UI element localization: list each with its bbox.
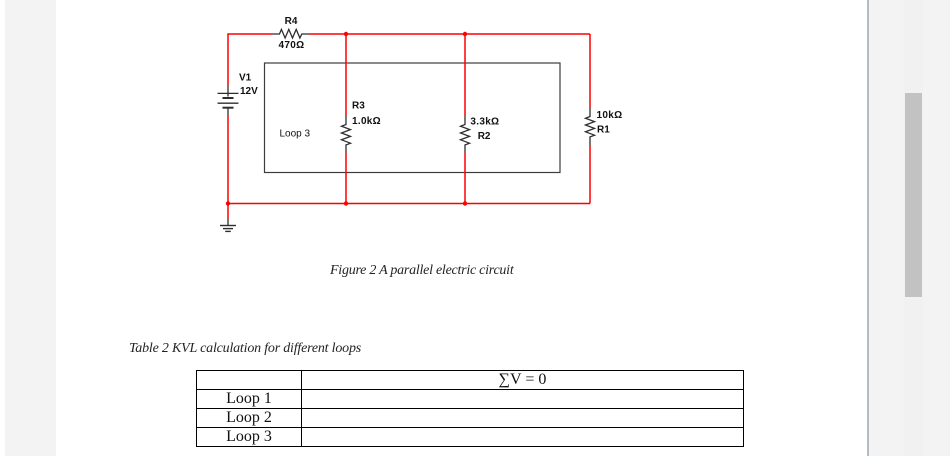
- wire branch R3: [345, 34, 347, 204]
- scrollbar track: [904, 0, 923, 456]
- ground: [220, 219, 236, 232]
- svg-text:470Ω: 470Ω: [278, 40, 304, 51]
- svg-text:1.0kΩ: 1.0kΩ: [352, 116, 381, 127]
- svg-text:Loop 3: Loop 3: [280, 128, 311, 139]
- right page edge line: [867, 0, 869, 456]
- table caption: [129, 341, 361, 357]
- wire bottom net: [228, 203, 590, 205]
- wire top net: V1+ to R4: [228, 34, 273, 204]
- scrollbar thumb: [905, 93, 922, 297]
- svg-text:R2: R2: [478, 131, 491, 142]
- figure caption: [330, 263, 513, 279]
- right gray margin band: [869, 0, 950, 456]
- node E (bottom junction R2): [463, 201, 467, 205]
- resistor R3: [342, 116, 351, 153]
- svg-text:3.3kΩ: 3.3kΩ: [470, 117, 499, 128]
- label V1: [239, 73, 252, 84]
- svg-text:12V: 12V: [240, 86, 258, 97]
- value 3.3kΩ: [470, 117, 499, 128]
- svg-text:10kΩ: 10kΩ: [597, 110, 623, 121]
- node B (top junction R2): [463, 32, 467, 36]
- wire top: R4 right to node A and corner: [309, 33, 590, 35]
- label R1: [597, 125, 610, 136]
- wire right branch: R1: [589, 34, 591, 204]
- loop boundary box (Loop 3 region): [265, 63, 561, 173]
- svg-text:R3: R3: [352, 101, 365, 112]
- svg-text:R4: R4: [285, 16, 298, 27]
- svg-text:V1: V1: [239, 73, 252, 84]
- label R4: [285, 16, 298, 27]
- value 1.0kΩ: [352, 116, 381, 127]
- label R2: [478, 131, 491, 142]
- node C (bottom junction ground): [226, 201, 230, 205]
- resistor R2: [461, 116, 470, 153]
- battery V1: [218, 86, 239, 116]
- svg-text:R1: R1: [597, 125, 610, 136]
- resistor R4: [273, 29, 310, 38]
- wire branch R2: [464, 34, 466, 204]
- node A (top junction R3): [344, 32, 348, 36]
- value 470Ω: [278, 40, 304, 51]
- node D (bottom junction R3): [344, 201, 348, 205]
- value 12V: [240, 86, 258, 97]
- value 10kΩ: [597, 110, 623, 121]
- resistor R1: [586, 107, 595, 146]
- wire ground stub: [227, 204, 229, 219]
- left gray margin band: [5, 0, 56, 456]
- label Loop 3: [280, 128, 311, 139]
- label R3: [352, 101, 365, 112]
- table KVL: [196, 370, 744, 447]
